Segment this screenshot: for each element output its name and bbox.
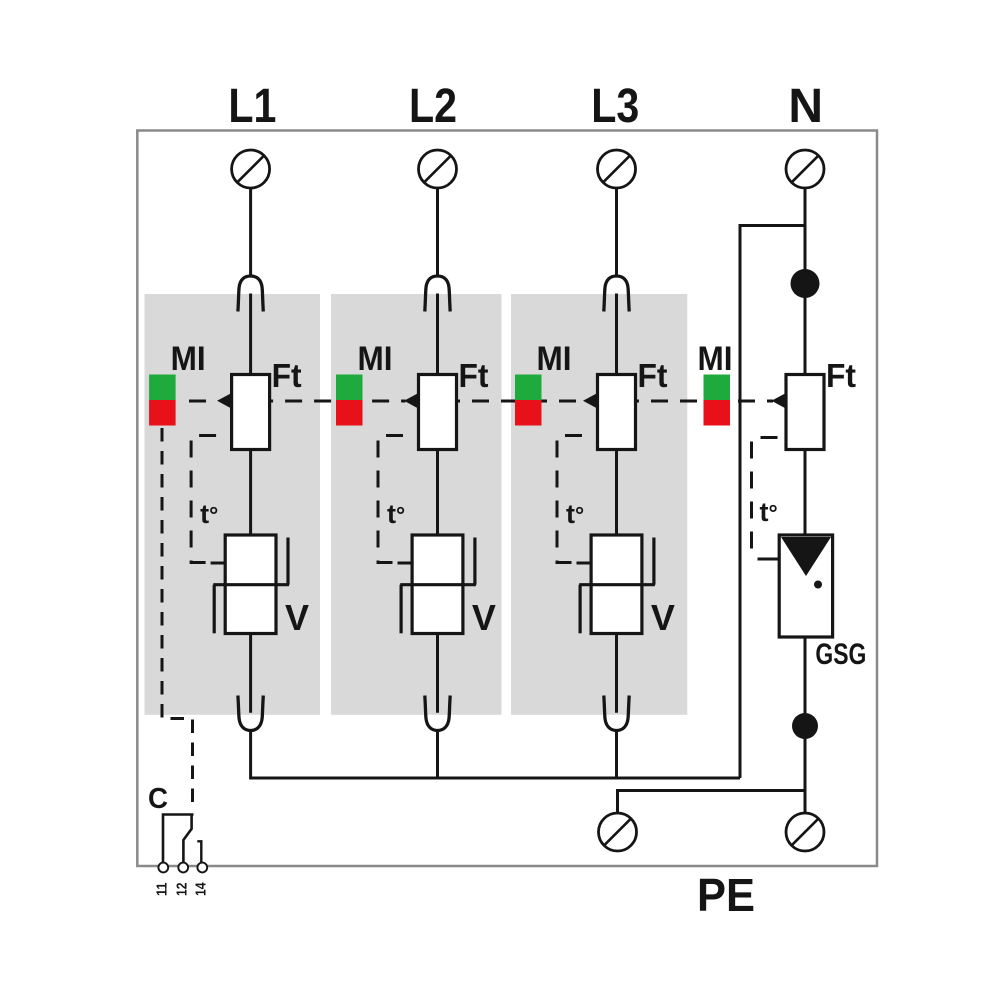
PE terminal left (screw clamp) — [599, 813, 637, 851]
wire GSG down to PE terminal — [804, 637, 807, 814]
terminal L2 (screw clamp) — [419, 150, 457, 188]
svg-text:MI: MI — [358, 340, 393, 378]
plug pin wire L3 to disconnector — [615, 294, 618, 375]
svg-text:L1: L1 — [228, 80, 276, 133]
svg-text:Ft: Ft — [826, 357, 856, 394]
svg-text:V: V — [472, 597, 496, 638]
MI indicator red (L1) — [149, 400, 176, 426]
gas discharge tube GSG — [779, 535, 832, 637]
thermal disconnector Ft N — [786, 375, 824, 450]
wire L3 disconnector to varistor — [615, 450, 618, 536]
thermal disconnector Ft L1 — [232, 375, 270, 450]
svg-text:MI: MI — [171, 340, 206, 378]
thermal linkage t-deg dashed line (L2) — [378, 436, 403, 563]
svg-text:MI: MI — [698, 340, 733, 378]
svg-text:t°: t° — [760, 497, 778, 527]
plug-in connector bottom socket L3 — [604, 696, 629, 731]
plug-in connector bottom socket L1 — [238, 696, 263, 731]
wire N terminal down — [804, 188, 807, 375]
wire L1 disconnector to varistor — [249, 450, 252, 536]
contact terminal 14 — [197, 863, 207, 873]
MI indicator green (N) — [704, 375, 731, 401]
svg-text:Ft: Ft — [272, 357, 302, 394]
junction dot N lower — [792, 713, 818, 739]
svg-text:Ft: Ft — [638, 357, 668, 394]
plug pin wire L1 to disconnector — [249, 294, 252, 375]
wire L1 varistor to plug pin — [249, 634, 252, 713]
junction dot N upper — [791, 269, 820, 298]
MI indicator red (N) — [704, 400, 731, 426]
changeover contact C make contact 14 — [197, 841, 201, 862]
svg-text:GSG: GSG — [815, 638, 866, 671]
wire L2 disconnector to varistor — [436, 450, 439, 536]
protection module box L1 (gray) — [145, 294, 321, 715]
MI indicator green (L1) — [149, 375, 176, 401]
plug-in connector top socket L3 — [604, 276, 629, 312]
changeover contact C movable arm — [183, 815, 191, 863]
svg-text:Ft: Ft — [459, 357, 489, 394]
thermal linkage t-deg dashed line (L1) — [191, 436, 216, 563]
bypass wire from PE bus up to N node — [740, 226, 805, 779]
disconnector arrow L1 — [217, 393, 232, 409]
contact terminal 12 — [178, 863, 188, 873]
contact terminal 11 — [158, 863, 168, 873]
disconnector arrow L3 — [583, 393, 598, 409]
thermal linkage lead into GSG — [758, 558, 780, 561]
svg-text:12: 12 — [173, 883, 190, 897]
svg-text:C: C — [148, 783, 168, 815]
plug-in connector bottom socket L2 — [425, 696, 450, 731]
signalling dashed line segment MI L1 to arrow L1 — [189, 400, 218, 403]
varistor V (L2) — [398, 535, 476, 634]
disconnector arrow L2 — [404, 393, 419, 409]
plug-in connector top socket L1 — [238, 276, 263, 312]
wire N disconnector to gas discharge tube — [804, 450, 807, 536]
svg-text:t°: t° — [200, 499, 218, 529]
varistor V (L3) — [577, 535, 655, 634]
svg-text:11: 11 — [154, 883, 171, 897]
thermal linkage t-deg dashed line (L3) — [557, 436, 582, 563]
terminal L3 (screw clamp) — [598, 150, 636, 188]
wire L1 terminal down — [249, 188, 252, 276]
wire L3 bottom to PE bus — [615, 731, 618, 778]
wire L3 varistor to plug pin — [615, 634, 618, 713]
MI indicator green (L2) — [336, 375, 363, 401]
enclosure border — [137, 131, 877, 867]
signalling dashed line segment Ft L1 to arrow L2 — [270, 400, 405, 403]
thermal disconnector Ft L2 — [419, 375, 457, 450]
svg-text:N: N — [788, 80, 823, 133]
svg-text:V: V — [651, 597, 675, 638]
MI indicator red (L3) — [515, 400, 542, 426]
PE terminal bus wire — [618, 791, 806, 814]
protection module box L2 (gray) — [331, 294, 502, 715]
PE terminal right (screw clamp) — [786, 813, 824, 851]
plug pin wire L2 to disconnector — [436, 294, 439, 375]
svg-text:L2: L2 — [409, 80, 457, 133]
PE bus wire (varistor commons) — [251, 731, 740, 778]
thermal disconnector Ft L3 — [598, 375, 636, 450]
svg-text:V: V — [285, 597, 309, 638]
wire L3 terminal down — [615, 188, 618, 276]
svg-text:L3: L3 — [591, 80, 639, 133]
wire L2 bottom to PE bus — [436, 731, 439, 778]
signalling dashed line from MI L1 down to contact C — [162, 428, 193, 807]
varistor V (L1) — [211, 535, 289, 634]
svg-text:t°: t° — [387, 499, 405, 529]
terminal N (screw clamp) — [786, 150, 824, 188]
disconnector arrow N — [772, 393, 787, 409]
signalling dashed line segment Ft L3 to arrow N — [636, 400, 773, 403]
svg-text:14: 14 — [193, 882, 210, 896]
MI indicator red (L2) — [336, 400, 363, 426]
wire L2 terminal down — [436, 188, 439, 276]
svg-text:MI: MI — [537, 340, 572, 378]
svg-text:t°: t° — [566, 499, 584, 529]
changeover contact C frame — [163, 815, 194, 863]
wire L2 varistor to plug pin — [436, 634, 439, 713]
terminal L1 (screw clamp) — [232, 150, 270, 188]
thermal linkage t-deg dashed line (N) — [752, 438, 778, 560]
svg-text:PE: PE — [697, 869, 755, 921]
plug-in connector top socket L2 — [425, 276, 450, 312]
protection module box L3 (gray) — [511, 294, 687, 715]
MI indicator green (L3) — [515, 375, 542, 401]
signalling dashed line segment Ft L2 to arrow L3 — [457, 400, 585, 403]
